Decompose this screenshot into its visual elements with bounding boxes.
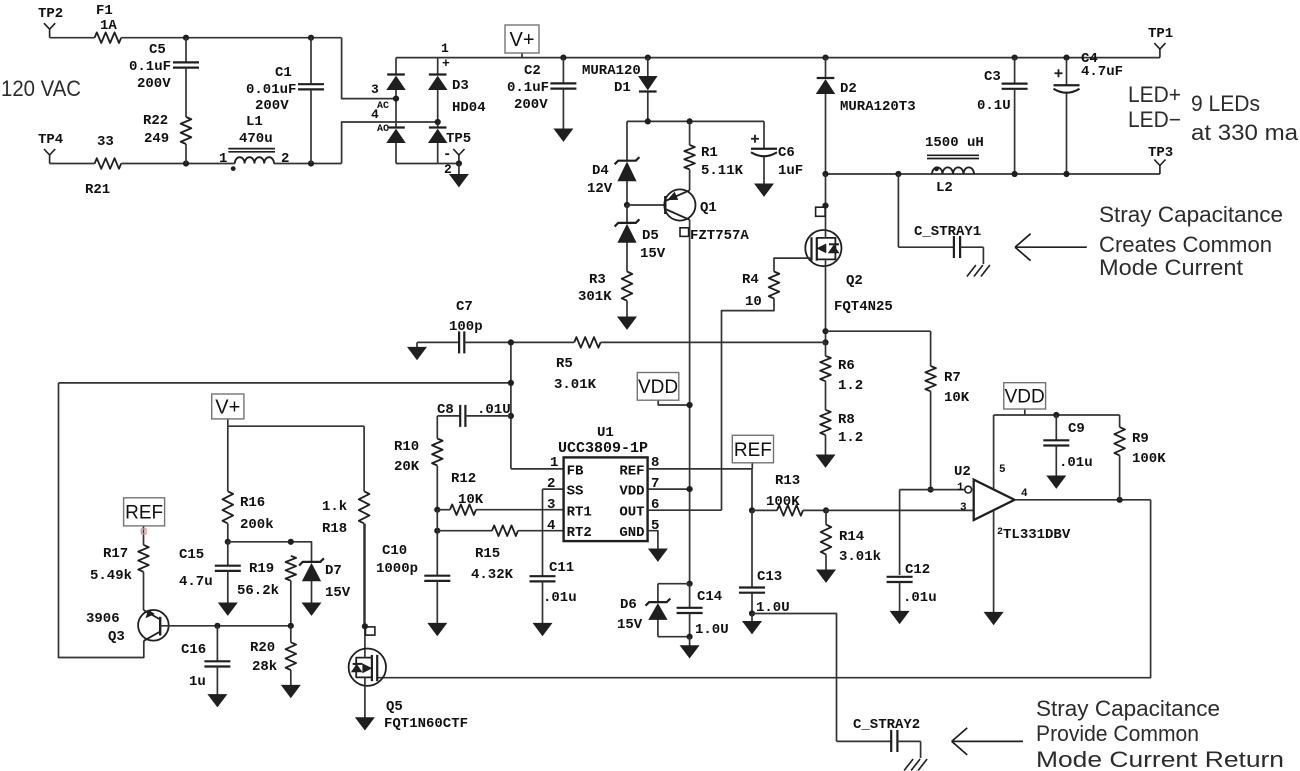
annotation arrow 2 xyxy=(952,728,1023,755)
ground C9 xyxy=(1047,476,1065,488)
svg-text:1.2: 1.2 xyxy=(838,430,863,446)
svg-text:56.2k: 56.2k xyxy=(237,583,279,599)
bridge diode D3b xyxy=(387,99,405,164)
svg-text:3: 3 xyxy=(960,502,967,514)
svg-text:R13: R13 xyxy=(775,473,800,489)
svg-text:FB: FB xyxy=(567,463,584,479)
junction C13 bottom xyxy=(749,610,755,616)
svg-text:F1: F1 xyxy=(96,3,113,19)
svg-text:Creates Common: Creates Common xyxy=(1099,232,1272,257)
transistor Q2 FQT4N25 xyxy=(805,174,841,342)
svg-text:4: 4 xyxy=(371,107,379,122)
ground C16 xyxy=(208,695,226,707)
ground Q5 source xyxy=(356,718,374,730)
svg-text:GND: GND xyxy=(619,525,644,541)
svg-text:TP2: TP2 xyxy=(38,6,63,22)
resistor R3 xyxy=(622,272,633,318)
svg-text:0.1uF: 0.1uF xyxy=(129,59,171,75)
svg-text:Stray Capacitance: Stray Capacitance xyxy=(1099,202,1283,227)
svg-text:R1: R1 xyxy=(701,145,718,161)
ground C2 xyxy=(554,127,572,141)
svg-text:4.7uF: 4.7uF xyxy=(1081,64,1123,80)
bridge diode D3d xyxy=(429,122,447,164)
svg-text:4: 4 xyxy=(547,518,555,534)
junction R13 R14 xyxy=(823,507,829,513)
net label V+ top xyxy=(505,25,539,58)
svg-text:D5: D5 xyxy=(642,228,659,244)
ground D7 xyxy=(303,603,321,615)
net label VDD near U1 xyxy=(637,373,689,406)
svg-text:REF: REF xyxy=(125,503,163,524)
junction R7 tap xyxy=(822,328,828,334)
svg-text:1: 1 xyxy=(957,482,964,494)
svg-text:120 VAC: 120 VAC xyxy=(1,76,81,101)
svg-text:OUT: OUT xyxy=(619,505,644,521)
diode D2 xyxy=(817,58,835,174)
junction C16 xyxy=(214,623,220,629)
svg-text:R5: R5 xyxy=(556,356,573,372)
svg-text:C1: C1 xyxy=(275,65,292,81)
junction Q1 base xyxy=(624,202,630,208)
wire R4 to Q2 gate xyxy=(774,258,812,271)
junction D1 bottom xyxy=(645,118,651,124)
wire SS to C11 xyxy=(543,489,564,576)
svg-text:R18: R18 xyxy=(322,521,347,537)
svg-text:U1: U1 xyxy=(597,425,614,441)
svg-text:5.49k: 5.49k xyxy=(90,568,132,584)
capacitor C16 xyxy=(204,626,230,695)
svg-text:Mode Current: Mode Current xyxy=(1099,255,1243,280)
wire VDD pin7 xyxy=(648,488,690,490)
svg-text:0.1uF: 0.1uF xyxy=(507,80,549,96)
junction R19 R20 xyxy=(288,623,294,629)
svg-text:C_STRAY1: C_STRAY1 xyxy=(914,224,981,240)
net label VDD near U2 xyxy=(1004,383,1046,415)
svg-text:2TL331DBV: 2TL331DBV xyxy=(997,527,1071,543)
junction C2 xyxy=(560,55,566,61)
junction C_STRAY1 xyxy=(895,171,901,177)
capacitor C12 xyxy=(900,490,931,575)
svg-text:R17: R17 xyxy=(103,546,128,562)
wire U2 output xyxy=(1015,499,1151,501)
wire R16 to R19 D7 xyxy=(228,542,312,562)
svg-text:V+: V+ xyxy=(215,397,240,419)
svg-text:LED−: LED− xyxy=(1128,107,1181,132)
stray capacitor C_STRAY1 xyxy=(898,174,983,264)
svg-text:5.11K: 5.11K xyxy=(701,163,744,179)
pad square Q5 gate region xyxy=(366,627,375,635)
ground R3 xyxy=(618,317,636,329)
svg-text:TP1: TP1 xyxy=(1148,26,1173,42)
svg-text:200V: 200V xyxy=(255,98,289,114)
svg-text:R6: R6 xyxy=(838,358,855,374)
wire VDD U2 rail xyxy=(994,414,1120,416)
comparator U2 TL331DBV xyxy=(965,415,1015,612)
wire V+ to R16 R18 xyxy=(228,425,364,427)
svg-text:10K: 10K xyxy=(944,390,970,406)
resistor R20 xyxy=(286,626,297,686)
svg-text:3.01K: 3.01K xyxy=(554,377,597,393)
inductor L1 xyxy=(228,149,275,171)
wire to R7 xyxy=(826,330,931,332)
junction bottom C5 xyxy=(183,160,189,166)
svg-text:1: 1 xyxy=(441,41,449,56)
capacitor C1 xyxy=(298,38,324,164)
svg-text:1uF: 1uF xyxy=(778,163,803,179)
svg-text:100K: 100K xyxy=(766,494,800,510)
svg-text:R20: R20 xyxy=(250,640,275,656)
ground C14 xyxy=(681,637,699,658)
resistor R16 xyxy=(223,426,234,542)
junction D2 bottom xyxy=(822,171,828,177)
svg-text:at 330 ma: at 330 ma xyxy=(1191,120,1299,145)
svg-text:C8: C8 xyxy=(437,402,454,418)
wire feedback loop left xyxy=(59,383,144,658)
svg-text:C9: C9 xyxy=(1068,421,1085,437)
resistor R5 xyxy=(511,337,826,348)
svg-text:C15: C15 xyxy=(179,547,204,563)
junction C4 top xyxy=(1063,55,1069,61)
svg-text:1u: 1u xyxy=(189,674,206,690)
svg-text:D3: D3 xyxy=(452,78,469,94)
svg-text:R3: R3 xyxy=(589,272,606,288)
wire R21 to L1 xyxy=(121,163,235,165)
junction C3 bottom xyxy=(1012,171,1018,177)
resistor R13 xyxy=(752,505,826,516)
svg-text:-: - xyxy=(443,147,451,163)
wire R10 to C10 xyxy=(436,510,438,576)
resistor R15 xyxy=(437,525,563,536)
svg-text:C2: C2 xyxy=(524,63,541,79)
svg-text:4: 4 xyxy=(1021,488,1028,500)
svg-text:R4: R4 xyxy=(742,272,759,288)
zener diode D7 xyxy=(299,558,324,603)
svg-text:Q5: Q5 xyxy=(386,699,403,715)
junction VDD stub xyxy=(687,402,693,408)
svg-text:D1: D1 xyxy=(614,80,631,96)
svg-text:TP4: TP4 xyxy=(38,132,63,148)
svg-text:10: 10 xyxy=(745,294,762,310)
svg-text:C12: C12 xyxy=(905,562,930,578)
svg-text:MURA120: MURA120 xyxy=(582,63,641,79)
ground C10 xyxy=(428,623,446,635)
wire to TP5 node xyxy=(438,163,459,165)
junction C14 bottom xyxy=(687,634,693,640)
junction Q2 drain pad xyxy=(822,203,828,209)
wire GND pin5 xyxy=(648,531,658,549)
svg-text:R21: R21 xyxy=(85,182,110,198)
wire node after D1 xyxy=(627,120,764,122)
svg-text:20K: 20K xyxy=(394,459,420,475)
svg-text:D6: D6 xyxy=(620,597,637,613)
wire C13 to C_STRAY2 xyxy=(752,614,837,742)
wire L1 to jog xyxy=(274,163,342,165)
svg-text:VDD: VDD xyxy=(1005,387,1045,408)
svg-text:1: 1 xyxy=(550,455,558,471)
svg-text:5: 5 xyxy=(999,464,1006,476)
junction C8 xyxy=(508,413,514,419)
svg-text:C10: C10 xyxy=(382,543,407,559)
svg-text:FZT757A: FZT757A xyxy=(690,228,749,244)
junction R12 row xyxy=(434,507,440,513)
capacitor C11 xyxy=(530,576,556,623)
svg-text:2: 2 xyxy=(281,151,289,167)
junction VDD pin7 xyxy=(687,486,693,492)
svg-text:FQT4N25: FQT4N25 xyxy=(834,299,893,315)
junction Q5 drain pad xyxy=(362,623,368,629)
ground C12 xyxy=(891,611,909,623)
svg-text:SS: SS xyxy=(567,484,584,500)
svg-text:D4: D4 xyxy=(592,163,609,179)
svg-text:1.k: 1.k xyxy=(322,499,347,515)
wire REF pin8 xyxy=(648,468,752,470)
ground C11 xyxy=(534,623,552,635)
zener diode D5 xyxy=(615,205,640,272)
svg-text:R10: R10 xyxy=(394,439,419,455)
pad square Q1 collector xyxy=(680,228,689,237)
svg-text:Provide Common: Provide Common xyxy=(1036,721,1199,746)
resistor R17 xyxy=(138,545,149,610)
svg-text:15V: 15V xyxy=(640,246,666,262)
wire F1 to jog xyxy=(121,37,341,39)
transistor Q1 FZT757A xyxy=(664,189,695,583)
svg-text:9 LEDs: 9 LEDs xyxy=(1191,91,1260,116)
svg-text:3.01k: 3.01k xyxy=(839,549,881,565)
bridge diode D3c xyxy=(429,58,447,122)
junction bridge AC1 xyxy=(393,96,399,102)
test point TP3 xyxy=(1154,160,1165,175)
junction R16 bottom xyxy=(225,539,231,545)
svg-text:200V: 200V xyxy=(137,76,171,92)
svg-text:4.7u: 4.7u xyxy=(179,574,213,590)
svg-text:C16: C16 xyxy=(181,642,206,658)
annotation arrow 1 xyxy=(1015,234,1087,261)
svg-text:R22: R22 xyxy=(143,113,168,129)
svg-text:AC: AC xyxy=(377,124,389,135)
transistor Q3 2N3906 xyxy=(138,610,169,641)
junction bottom C1 xyxy=(308,160,314,166)
svg-text:470u: 470u xyxy=(239,131,273,147)
svg-text:C14: C14 xyxy=(697,589,722,605)
svg-text:3906: 3906 xyxy=(86,611,120,627)
capacitor C7 xyxy=(417,331,511,353)
net label V+ bottom xyxy=(212,394,244,426)
svg-text:D2: D2 xyxy=(840,81,857,97)
wire bridge top rail xyxy=(396,57,438,59)
junction top C5 xyxy=(183,35,189,41)
svg-text:15V: 15V xyxy=(325,585,351,601)
svg-text:.01u: .01u xyxy=(1059,455,1093,471)
svg-text:TP5: TP5 xyxy=(446,131,471,147)
wire feedback to FB node xyxy=(59,382,511,384)
svg-text:R14: R14 xyxy=(839,529,864,545)
svg-text:28k: 28k xyxy=(252,659,277,675)
wire TP2 to F1 xyxy=(50,37,95,39)
resistor R19 xyxy=(286,556,297,626)
svg-text:VDD: VDD xyxy=(638,377,678,398)
wire U2 output to Q5 gate xyxy=(377,500,1150,678)
fuse F1 xyxy=(95,32,122,43)
wire FB node vertical xyxy=(510,342,512,469)
svg-text:REF: REF xyxy=(734,440,772,461)
junction R13 left xyxy=(749,507,755,513)
resistor R18 xyxy=(359,426,370,626)
ground R20 xyxy=(282,685,300,697)
junction top C1 xyxy=(308,35,314,41)
svg-text:301K: 301K xyxy=(578,289,612,305)
svg-text:C5: C5 xyxy=(149,42,166,58)
svg-text:3: 3 xyxy=(371,82,379,97)
svg-text:3: 3 xyxy=(547,497,555,513)
zener diode D4 xyxy=(615,121,640,205)
wire TP4 to R21 xyxy=(50,163,95,165)
zener diode D6 xyxy=(646,599,671,620)
svg-text:.01u: .01u xyxy=(543,590,577,606)
wire D4 D5 to Q1 base xyxy=(627,204,665,206)
resistor R7 xyxy=(925,331,936,489)
junction TP5 xyxy=(456,160,462,166)
resistor R8 xyxy=(820,395,831,455)
resistor R21 xyxy=(95,158,122,169)
svg-text:L1: L1 xyxy=(246,114,263,130)
junction R19 top xyxy=(288,539,294,545)
junction C9 xyxy=(1053,412,1059,418)
svg-text:0.01uF: 0.01uF xyxy=(246,82,296,98)
capacitor C3 xyxy=(1002,58,1028,174)
net label REF near U1 xyxy=(732,435,773,469)
ground R6 R8 xyxy=(817,455,835,467)
zener diode D6 loop xyxy=(658,584,690,637)
test point TP4 xyxy=(44,149,55,164)
junction RT2 row xyxy=(434,528,440,534)
capacitor C10 xyxy=(424,576,450,624)
capacitor C13 xyxy=(751,510,753,587)
junction C7 R5 xyxy=(508,339,514,345)
ground C6 xyxy=(755,184,773,196)
svg-text:MURA120T3: MURA120T3 xyxy=(840,99,916,115)
capacitor C6 xyxy=(751,121,777,184)
svg-text:100K: 100K xyxy=(1132,451,1166,467)
junction C4 bottom xyxy=(1063,171,1069,177)
wire LED- rail xyxy=(826,173,1160,175)
transistor Q5 FQT1N60CTF xyxy=(349,524,386,718)
svg-text:2: 2 xyxy=(547,476,555,492)
capacitor C13 plates xyxy=(739,588,765,614)
resistor R6 xyxy=(820,342,831,395)
ground at TP5 xyxy=(450,164,468,187)
svg-text:12V: 12V xyxy=(587,181,613,197)
junction R1 top xyxy=(687,118,693,124)
wire jog to bridge AC2 xyxy=(342,122,438,164)
capacitor C8 xyxy=(437,405,511,427)
svg-text:V+: V+ xyxy=(509,29,534,51)
resistor R1 xyxy=(684,121,695,190)
ground C13 xyxy=(743,614,761,634)
svg-text:C11: C11 xyxy=(549,560,574,576)
wire to U2 pin1 bubble xyxy=(931,489,965,491)
svg-text:100p: 100p xyxy=(449,319,483,335)
svg-text:C13: C13 xyxy=(757,569,782,585)
svg-text:R15: R15 xyxy=(475,546,500,562)
svg-text:0.1U: 0.1U xyxy=(977,98,1011,114)
wire OUT pin6 xyxy=(648,509,722,511)
svg-text:REF: REF xyxy=(619,463,644,479)
svg-text:1500 uH: 1500 uH xyxy=(925,135,984,151)
svg-text:Q2: Q2 xyxy=(846,273,863,289)
wire V+ rail xyxy=(438,57,1160,59)
svg-text:LED+: LED+ xyxy=(1128,82,1181,107)
resistor R9 xyxy=(1114,415,1125,500)
svg-text:VDD: VDD xyxy=(619,484,644,500)
capacitor C9 xyxy=(1043,415,1069,476)
svg-text:Stray Capacitance: Stray Capacitance xyxy=(1036,696,1220,721)
junction loop xyxy=(508,380,514,386)
wire bridge bottom rail xyxy=(396,163,438,165)
svg-text:RT1: RT1 xyxy=(567,505,592,521)
junction R9 bottom xyxy=(1117,497,1123,503)
wire REF vertical xyxy=(751,469,753,511)
svg-text:4.32K: 4.32K xyxy=(471,567,514,583)
svg-text:C6: C6 xyxy=(778,145,795,161)
capacitor C4 xyxy=(1054,58,1080,174)
junction C14 top xyxy=(687,581,693,587)
svg-text:1.0U: 1.0U xyxy=(695,622,729,638)
net label REF near Q3 xyxy=(124,498,165,545)
svg-text:Mode Current Return: Mode Current Return xyxy=(1036,747,1284,771)
ground C15 xyxy=(219,603,237,615)
svg-text:Q1: Q1 xyxy=(700,200,717,216)
svg-text:1.2: 1.2 xyxy=(838,378,863,394)
svg-text:Q3: Q3 xyxy=(108,629,125,645)
svg-text:R7: R7 xyxy=(944,370,961,386)
earth ground C_STRAY2 xyxy=(904,759,927,771)
svg-text:C7: C7 xyxy=(456,299,473,315)
diode D1 xyxy=(639,58,657,122)
svg-text:L2: L2 xyxy=(936,180,953,196)
junction D1 xyxy=(645,55,651,61)
svg-text:R8: R8 xyxy=(838,412,855,428)
svg-text:R16: R16 xyxy=(240,495,265,511)
svg-text:U2: U2 xyxy=(954,464,971,480)
pink pad marker xyxy=(141,529,146,534)
svg-text:200k: 200k xyxy=(240,517,274,533)
ground R14 xyxy=(817,570,835,582)
test point TP1 xyxy=(1154,43,1165,58)
resistor R12 xyxy=(437,504,563,515)
capacitor C2 xyxy=(550,58,576,127)
svg-text:1: 1 xyxy=(219,151,227,167)
svg-text:1A: 1A xyxy=(100,18,117,34)
svg-text:TP3: TP3 xyxy=(1148,145,1173,161)
wire C8 to R10 xyxy=(436,416,438,439)
junction D2 xyxy=(822,55,828,61)
junction C3 top xyxy=(1012,55,1018,61)
test point TP5 xyxy=(453,149,464,164)
svg-text:FQT1N60CTF: FQT1N60CTF xyxy=(384,716,468,732)
wire jog to bridge AC1 xyxy=(342,38,396,99)
capacitor C12 plates xyxy=(887,577,913,612)
test point TP2 xyxy=(44,23,55,38)
junction R7 C12 pin1 xyxy=(928,487,934,493)
svg-text:C3: C3 xyxy=(984,69,1001,85)
svg-text:R19: R19 xyxy=(249,561,274,577)
capacitor C14 xyxy=(677,584,703,637)
resistor R4 xyxy=(769,272,780,299)
ground U2 pin2 xyxy=(985,612,1003,624)
svg-text:15V: 15V xyxy=(617,617,643,633)
inductor L2 xyxy=(927,155,979,174)
svg-text:RT2: RT2 xyxy=(567,525,592,541)
